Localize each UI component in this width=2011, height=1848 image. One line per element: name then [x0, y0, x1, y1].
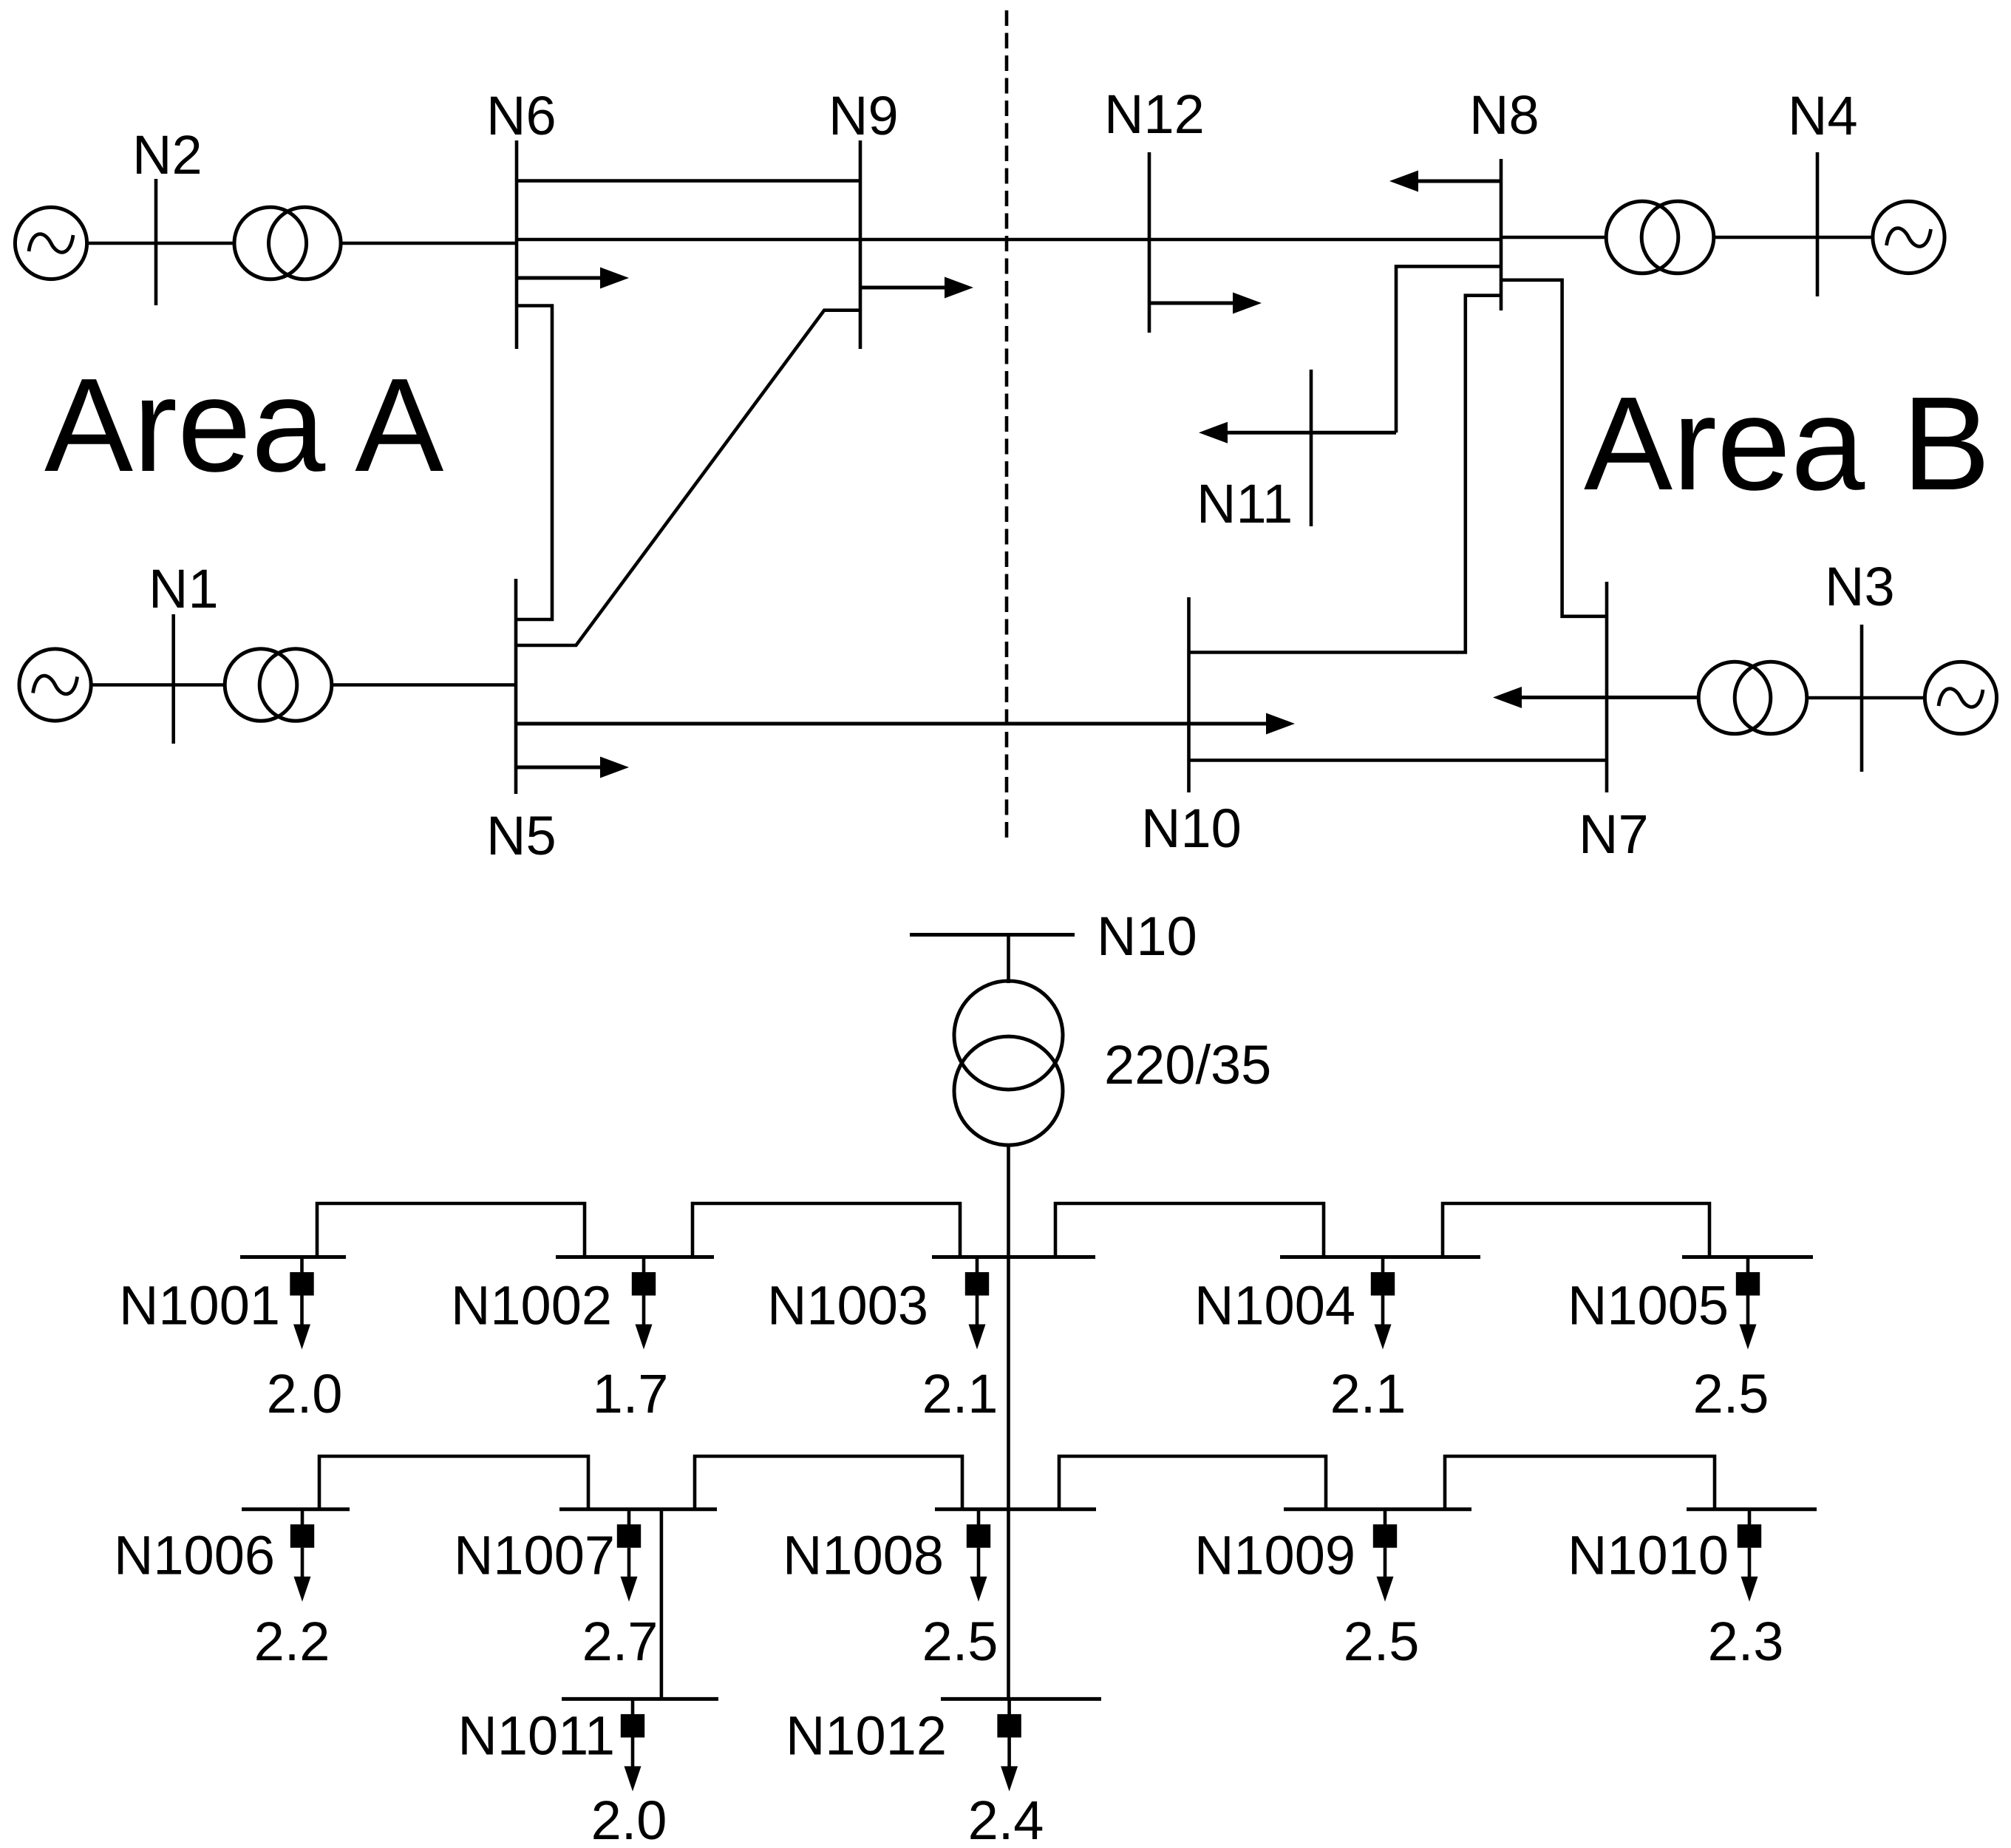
value 1.7 at N1002 [593, 1363, 669, 1424]
bus N1007 [559, 1507, 717, 1511]
label N7 [1579, 804, 1649, 865]
label Area B [1584, 370, 1990, 518]
wire G2 to transformer T2 across bus N2 [87, 242, 234, 245]
label N1007 [454, 1525, 615, 1586]
wire N8 to N10 [1189, 296, 1502, 653]
bus N9 [859, 140, 862, 349]
label N10 (distribution head) [1097, 906, 1197, 967]
bus N1011 [562, 1697, 718, 1701]
svg-text:N12: N12 [1104, 84, 1205, 145]
svg-text:220/35: 220/35 [1104, 1034, 1271, 1095]
bus N6 [515, 140, 519, 349]
wire N6 to N8 (main tie line) [517, 238, 1501, 242]
svg-text:2.7: 2.7 [582, 1611, 659, 1672]
value 2.0 at N1001 [267, 1363, 343, 1424]
transformer T2 (N2-N6) [234, 207, 341, 279]
load arrow at N9 [860, 277, 973, 299]
transformer T1 (N1-N5) [225, 649, 332, 721]
bus N5 [514, 579, 518, 794]
svg-text:N7: N7 [1579, 804, 1649, 865]
transformer T4 (N8-N4) [1606, 201, 1714, 274]
flow arrow into N8 (pointing left) [1389, 171, 1501, 192]
bus N1012 [941, 1697, 1101, 1701]
wire T3 to N7 with flow arrow (pointing left) [1493, 687, 1698, 708]
wire T2 to bus N6 [341, 242, 517, 245]
load at N1002 [632, 1257, 656, 1350]
load at N1010 [1738, 1509, 1761, 1602]
svg-text:N2: N2 [132, 124, 203, 186]
wire N5 to N10 with flow arrow [516, 713, 1295, 735]
bus N1004 [1280, 1255, 1480, 1259]
svg-text:N1002: N1002 [451, 1275, 612, 1336]
line N1001-N1002 [317, 1203, 585, 1257]
value 2.4 at N1012 [968, 1790, 1044, 1848]
svg-text:N1010: N1010 [1568, 1525, 1729, 1586]
line N1007-N1011 [660, 1509, 664, 1699]
bus N11 [1310, 370, 1313, 526]
svg-text:Area B: Area B [1584, 370, 1990, 518]
value 2.1 at N1004 [1330, 1363, 1406, 1424]
label 220/35 [1104, 1034, 1271, 1095]
generator G3 (right of N3) [1925, 662, 1996, 733]
line N1002-N1003 [693, 1203, 960, 1257]
svg-text:N4: N4 [1788, 85, 1858, 146]
label N1010 [1568, 1525, 1729, 1586]
label N1011 [457, 1705, 615, 1767]
wire line N6-N9 (parallel circuit) [517, 179, 860, 183]
svg-text:N1008: N1008 [783, 1525, 944, 1586]
label N1 [149, 558, 219, 619]
svg-text:2.1: 2.1 [1330, 1363, 1406, 1424]
label N1002 [451, 1275, 612, 1336]
label N6 [486, 85, 557, 146]
load at N1012 [997, 1699, 1021, 1791]
load at N1007 [617, 1509, 641, 1602]
area boundary dashed line [1005, 10, 1009, 843]
label Area A [44, 351, 443, 500]
svg-text:N1: N1 [149, 558, 219, 619]
svg-text:N1003: N1003 [767, 1275, 928, 1336]
svg-text:2.5: 2.5 [922, 1611, 998, 1672]
bus N1005 [1682, 1255, 1813, 1259]
generator G1 (left of N1) [19, 649, 91, 721]
svg-text:2.0: 2.0 [591, 1790, 667, 1848]
svg-text:2.4: 2.4 [968, 1790, 1044, 1848]
load at N1008 [967, 1509, 990, 1602]
svg-text:N9: N9 [828, 85, 899, 146]
svg-text:2.3: 2.3 [1708, 1611, 1784, 1672]
label N1001 [119, 1275, 280, 1336]
svg-text:N1005: N1005 [1568, 1275, 1729, 1336]
value 2.2 at N1006 [254, 1611, 330, 1672]
label N9 [828, 85, 899, 146]
bus N1010 [1687, 1507, 1817, 1511]
load at N1006 [290, 1509, 314, 1602]
label N1003 [767, 1275, 928, 1336]
svg-text:N1006: N1006 [114, 1525, 275, 1586]
value 2.1 at N1003 [922, 1363, 998, 1424]
bus N1008 [935, 1507, 1096, 1511]
bus N1 [171, 614, 175, 744]
label N11 [1197, 473, 1293, 534]
label N1008 [783, 1525, 944, 1586]
wire N8 to N7 [1501, 280, 1607, 616]
wire N6 to N5 [516, 306, 552, 620]
svg-text:N1012: N1012 [786, 1705, 947, 1767]
line N1004-N1005 [1443, 1203, 1709, 1257]
svg-text:N10: N10 [1097, 906, 1197, 967]
label N1004 [1194, 1275, 1355, 1336]
bus N8 [1500, 159, 1503, 310]
label N1006 [114, 1525, 275, 1586]
transformer 220/35 [954, 981, 1063, 1145]
svg-text:N10: N10 [1141, 798, 1242, 859]
line N1007-N1008 [695, 1456, 962, 1509]
bus N7 [1605, 582, 1609, 792]
wire N8 to T4 [1501, 236, 1606, 240]
bus N10 (distribution head) [910, 933, 1075, 937]
wire G1 to transformer T1 across bus N1 [91, 683, 225, 687]
line N1008-N1009 [1059, 1456, 1326, 1509]
generator G4 (right of N4) [1873, 201, 1944, 273]
value 2.3 at N1010 [1708, 1611, 1784, 1672]
bus N1002 [556, 1255, 714, 1259]
load at N1004 [1371, 1257, 1395, 1350]
label N1009 [1194, 1525, 1355, 1586]
svg-text:N1004: N1004 [1194, 1275, 1355, 1336]
label N3 [1825, 556, 1895, 617]
svg-text:N1009: N1009 [1194, 1525, 1355, 1586]
load arrow at N12 [1149, 293, 1262, 314]
label N1012 [786, 1705, 947, 1767]
svg-text:N1001: N1001 [119, 1275, 280, 1336]
label N4 [1788, 85, 1858, 146]
svg-text:2.5: 2.5 [1693, 1363, 1769, 1424]
load arrow at N11 (pointing left) [1199, 422, 1396, 444]
svg-text:2.1: 2.1 [922, 1363, 998, 1424]
bus N3 [1860, 625, 1864, 772]
wire N8 to N11 [1396, 266, 1501, 432]
transformer T3 (N7-N3) [1698, 662, 1807, 734]
load at N1003 [965, 1257, 989, 1350]
value 2.0 at N1011 [591, 1790, 667, 1848]
bus N1001 [240, 1255, 346, 1259]
svg-text:N8: N8 [1469, 84, 1539, 146]
label N8 [1469, 84, 1539, 146]
load at N1011 [621, 1699, 644, 1791]
load at N1005 [1736, 1257, 1760, 1350]
bus N1003 [932, 1255, 1095, 1259]
svg-text:2.0: 2.0 [267, 1363, 343, 1424]
load at N1009 [1373, 1509, 1397, 1602]
load arrow at N5 [516, 757, 629, 778]
line N1009-N1010 [1445, 1456, 1715, 1509]
line N1006-N1007 [319, 1456, 588, 1509]
wire T3 to generator G3 across bus N3 [1807, 696, 1925, 700]
bus N1009 [1284, 1507, 1471, 1511]
wire N5 to N9 (diagonal line) [516, 310, 860, 645]
generator G2 (left of N2) [15, 207, 86, 279]
bus N12 [1148, 152, 1151, 333]
value 2.5 at N1008 [922, 1611, 998, 1672]
bus N10 (transmission) [1187, 597, 1191, 792]
bus N2 [154, 179, 158, 305]
wire T4 to generator G4 across bus N4 [1714, 236, 1873, 240]
bus N1006 [242, 1507, 350, 1511]
svg-text:N5: N5 [486, 805, 557, 866]
wire N10 to N7 [1189, 758, 1607, 762]
svg-text:N1011: N1011 [457, 1705, 615, 1767]
label N10 [1141, 798, 1242, 859]
svg-text:N11: N11 [1197, 473, 1293, 534]
svg-text:N1007: N1007 [454, 1525, 615, 1586]
wire N10 to transformer 220/35 [1007, 935, 1010, 984]
line N1003-N1004 [1055, 1203, 1324, 1257]
value 2.7 at N1007 [582, 1611, 659, 1672]
feeder line from 220/35 down to N1012 [1007, 1145, 1010, 1699]
svg-text:Area A: Area A [44, 351, 443, 500]
svg-text:N3: N3 [1825, 556, 1895, 617]
value 2.5 at N1009 [1344, 1611, 1420, 1672]
load arrow at N6 [517, 268, 629, 289]
label N5 [486, 805, 557, 866]
load at N1001 [290, 1257, 313, 1350]
label N2 [132, 124, 203, 186]
label N1005 [1568, 1275, 1729, 1336]
svg-text:1.7: 1.7 [593, 1363, 669, 1424]
value 2.5 at N1005 [1693, 1363, 1769, 1424]
bus N4 [1816, 152, 1820, 296]
svg-text:N6: N6 [486, 85, 557, 146]
label N12 [1104, 84, 1205, 145]
wire T1 to bus N5 [332, 683, 516, 687]
svg-text:2.5: 2.5 [1344, 1611, 1420, 1672]
svg-text:2.2: 2.2 [254, 1611, 330, 1672]
